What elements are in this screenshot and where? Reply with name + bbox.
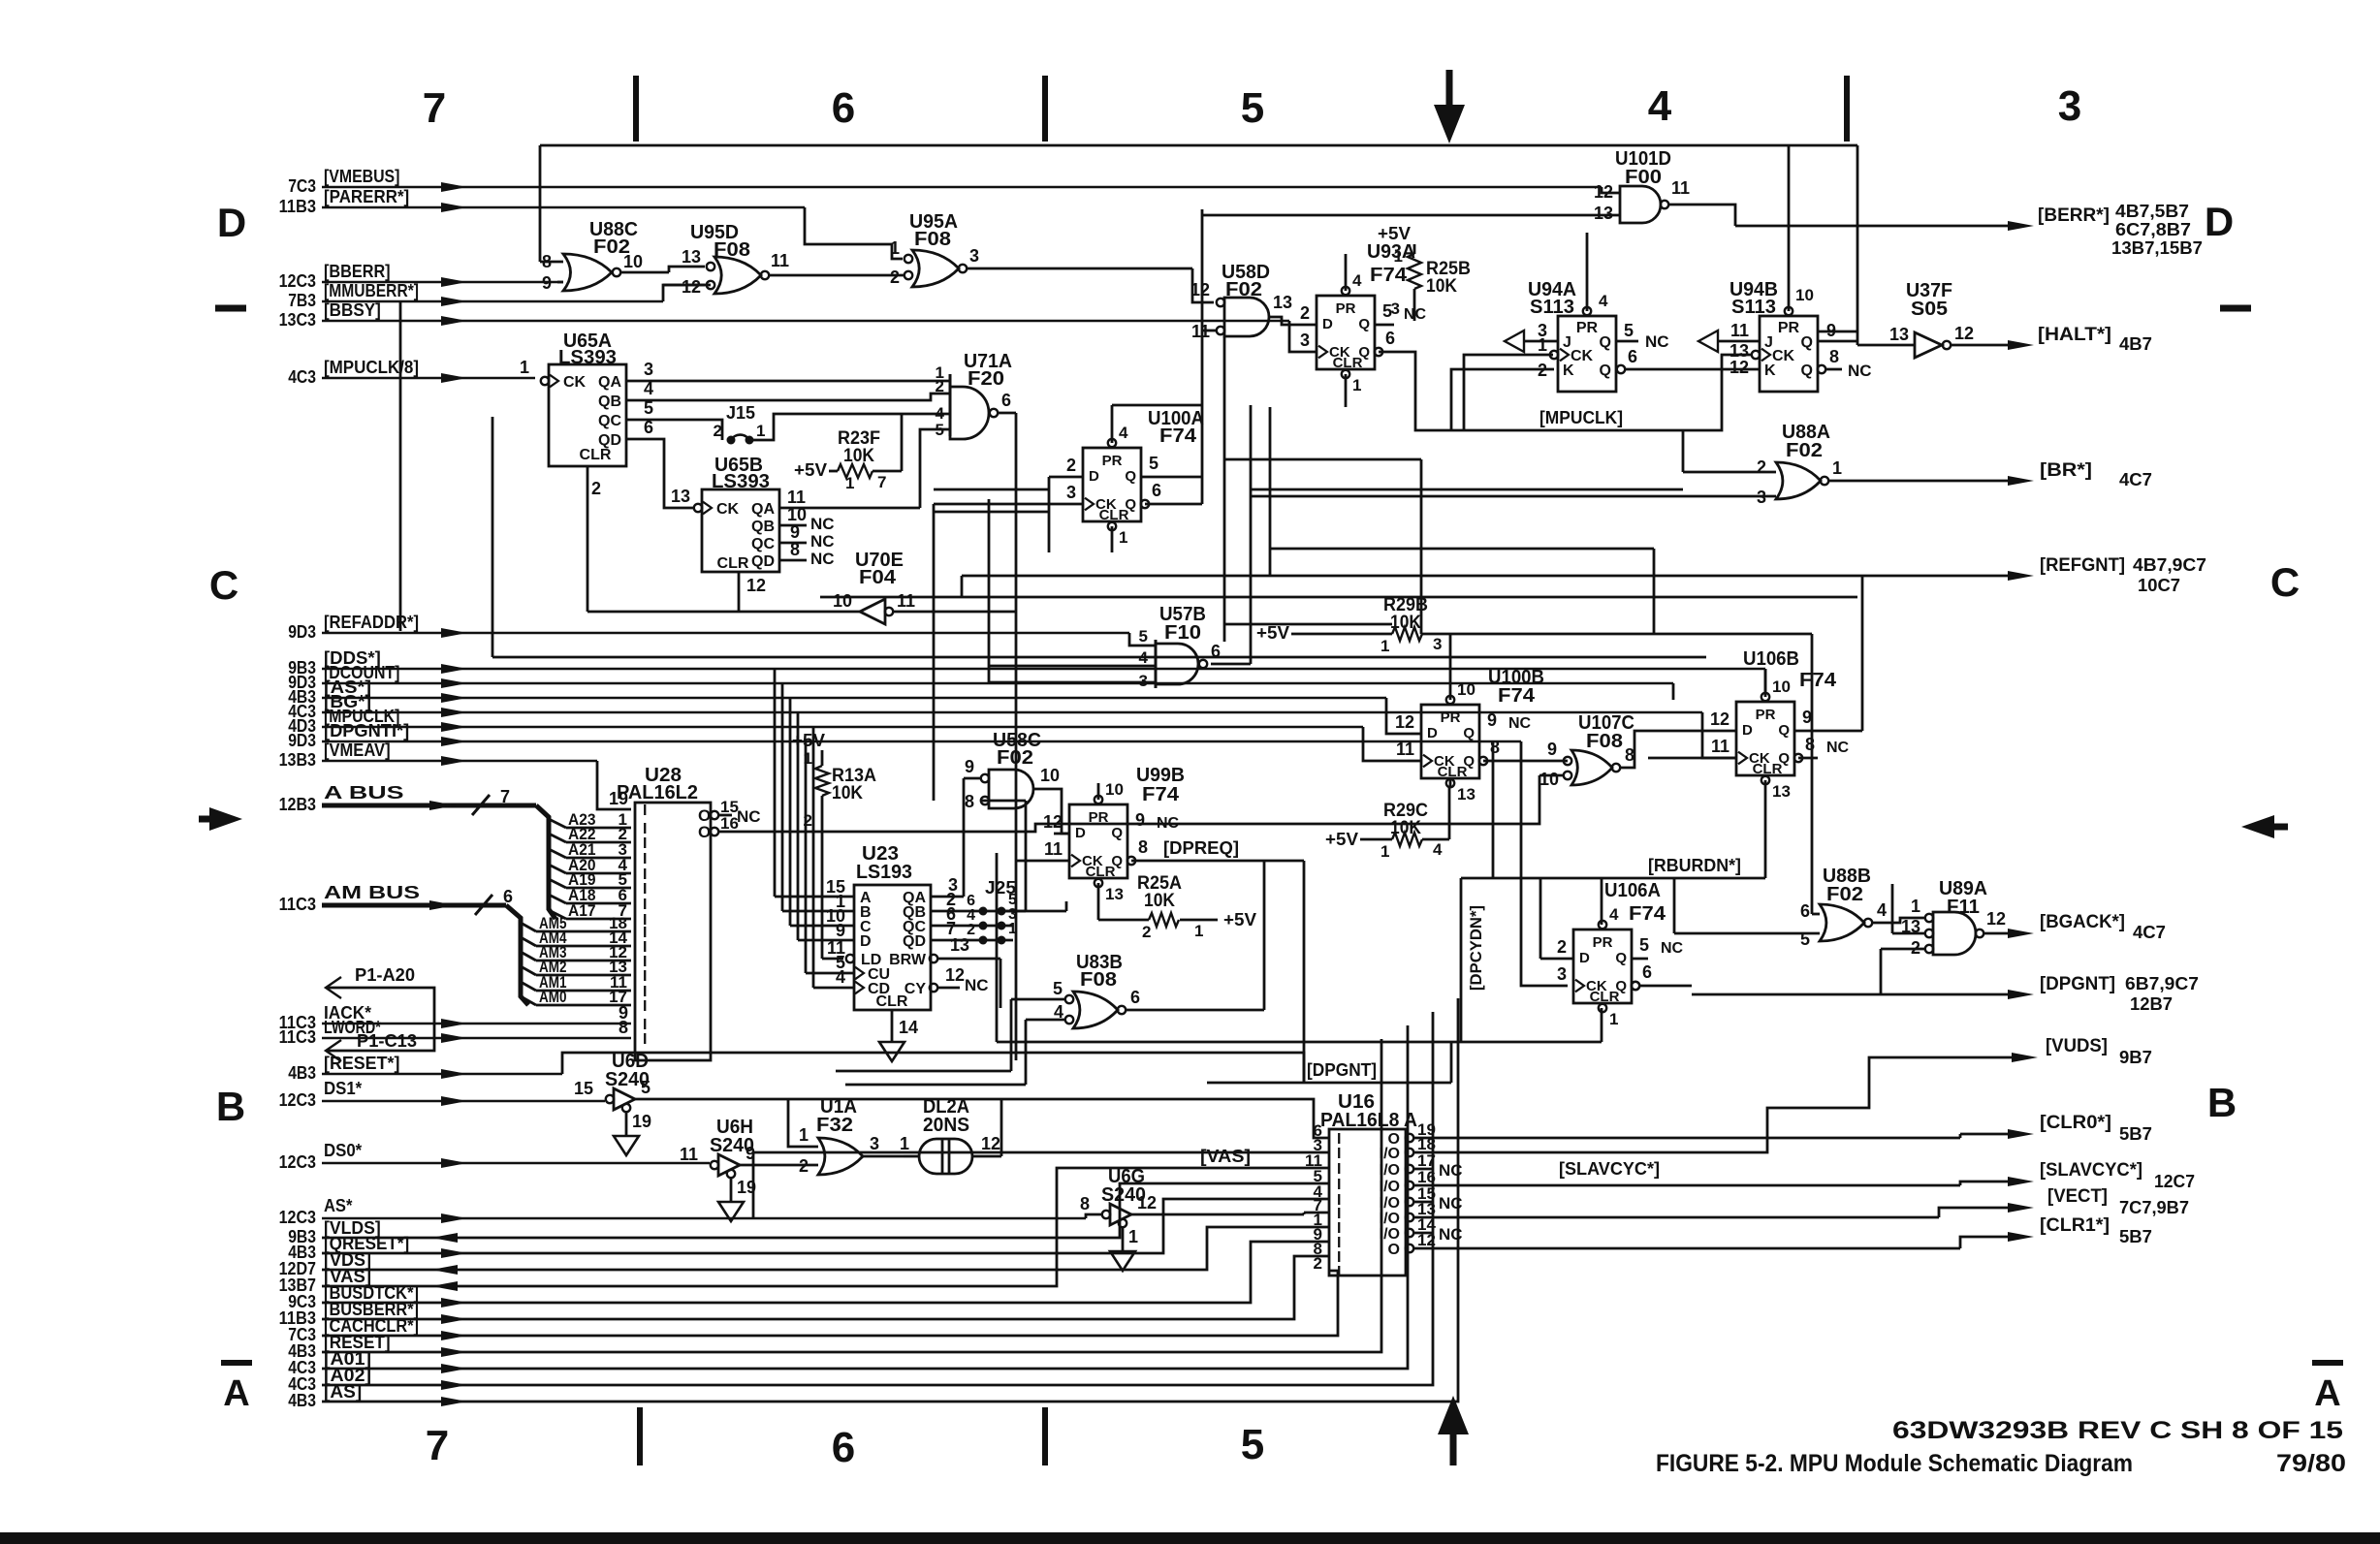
svg-text:[VMEAV]: [VMEAV] (324, 740, 391, 760)
gate U88B F02 (NOR) (1674, 634, 1925, 949)
flip-flop U106B F74 (1648, 576, 1862, 878)
bottom border bar (0, 1532, 2380, 1544)
svg-text:[BGACK*]: [BGACK*] (2040, 912, 2125, 932)
output [VECT] arrow (2008, 1186, 2189, 1217)
border column number 6 top (832, 84, 855, 132)
svg-text:2: 2 (591, 479, 601, 498)
svg-text:8: 8 (1080, 1194, 1090, 1213)
net 4B3 [QRESET*] entry wire with staircase to U16 (288, 1199, 1329, 1262)
svg-text:LWORD*: LWORD* (324, 1018, 381, 1037)
svg-text:D: D (1427, 725, 1438, 741)
svg-text:NC: NC (1826, 740, 1850, 756)
wire U57B output up trunk (1211, 405, 1251, 664)
svg-text:F10: F10 (1164, 622, 1201, 644)
inverter U70E F04 (587, 550, 1016, 624)
svg-text:[REFADDR*]: [REFADDR*] (324, 613, 419, 632)
gate U1A F32 (OR) (799, 1096, 904, 1176)
svg-text:F32: F32 (816, 1115, 853, 1136)
svg-text:8: 8 (1490, 738, 1500, 757)
svg-text:13: 13 (1273, 293, 1292, 312)
svg-text:4: 4 (1352, 271, 1362, 290)
svg-text:[DPGNT]: [DPGNT] (2040, 974, 2115, 994)
wire U16 pin16 to SLAVCYC output (1444, 1159, 2026, 1185)
svg-text:9B7: 9B7 (2119, 1048, 2152, 1067)
svg-text:[DPCYDN*]: [DPCYDN*] (1467, 905, 1485, 991)
wire long y678 (492, 417, 1706, 657)
svg-text:QC: QC (598, 413, 621, 429)
svg-text:3: 3 (1557, 964, 1567, 984)
svg-text:P1-A20: P1-A20 (355, 965, 415, 985)
border dash right (2220, 305, 2251, 312)
svg-text:9: 9 (542, 273, 552, 293)
svg-text:12: 12 (1190, 280, 1210, 299)
svg-text:[MPUCLK/8]: [MPUCLK/8] (324, 358, 419, 377)
svg-text:12C3: 12C3 (279, 1090, 316, 1110)
svg-text:I/O: I/O (1380, 1211, 1400, 1227)
wire U94A K feed (1451, 369, 1554, 430)
svg-text:CY: CY (904, 981, 927, 997)
svg-text:1: 1 (1008, 921, 1017, 937)
svg-text:13B3: 13B3 (279, 750, 316, 770)
svg-text:F08: F08 (1080, 969, 1117, 991)
svg-text:7C7,9B7: 7C7,9B7 (2119, 1198, 2189, 1217)
flip-flop U94A S113 (1528, 233, 1760, 392)
svg-text:O: O (1388, 1242, 1400, 1258)
gate U58C F02 (NOR neg-logic) (964, 730, 1069, 834)
svg-text:11C3: 11C3 (279, 1027, 316, 1047)
svg-text:[VMEBUS]: [VMEBUS] (324, 167, 399, 186)
wire U23 inputs bundle (775, 669, 854, 988)
wire U65B.QD NC stub (779, 559, 807, 562)
wire U23.BRW stub (936, 959, 1000, 1008)
border arrow bottom (up) (1438, 1396, 1469, 1465)
border row letter D right (2205, 199, 2234, 244)
svg-text:Q: Q (1778, 750, 1790, 767)
border column number 3 top (2058, 82, 2081, 130)
svg-text:4: 4 (1877, 900, 1887, 920)
border row letter A right with overbar (2312, 1363, 2343, 1414)
gate U107C F08 (AND neg-logic) (1539, 712, 1715, 789)
svg-text:11C3: 11C3 (279, 895, 316, 914)
svg-text:I: I (1337, 1146, 1341, 1162)
svg-text:8: 8 (965, 792, 974, 811)
svg-text:+5V: +5V (1325, 830, 1358, 849)
svg-text:Q: Q (1615, 950, 1627, 966)
svg-text:2: 2 (799, 1156, 809, 1176)
resistor R13A 10K (pullup) (792, 731, 876, 959)
net 11B3 [BUSBERR*] entry wire with staircase to U16 (279, 1256, 1329, 1328)
svg-text:[BBERR]: [BBERR] (324, 262, 391, 281)
wire filler horizontal y566 (1270, 549, 1654, 634)
svg-text:12: 12 (1417, 1231, 1436, 1249)
svg-text:F00: F00 (1625, 167, 1662, 188)
svg-text:I: I (1337, 1264, 1341, 1280)
svg-text:[SLAVCYC*]: [SLAVCYC*] (2040, 1160, 2142, 1181)
wire filler y474 bundle (1224, 459, 1421, 634)
svg-text:I/O: I/O (1380, 1195, 1400, 1212)
svg-text:F04: F04 (859, 567, 897, 588)
svg-text:1: 1 (1380, 637, 1389, 655)
svg-text:3: 3 (969, 246, 979, 266)
svg-text:Q: Q (1358, 344, 1370, 361)
svg-text:K: K (1563, 362, 1574, 379)
wire filler vertical x1310 (1269, 407, 1272, 576)
wire top feedback net y150 (540, 145, 1857, 262)
svg-text:[BBSY]: [BBSY] (324, 300, 381, 320)
svg-text:2: 2 (1538, 361, 1547, 380)
svg-text:11: 11 (897, 591, 915, 611)
open arrow into U94A J (1505, 331, 1558, 352)
svg-text:CLR: CLR (717, 555, 749, 572)
svg-text:4B7,9C7: 4B7,9C7 (2133, 555, 2206, 575)
svg-text:I: I (1337, 1177, 1341, 1193)
svg-text:19: 19 (609, 789, 628, 808)
svg-text:10: 10 (1040, 766, 1060, 785)
svg-text:QD: QD (751, 553, 775, 570)
wire filler vertical x963 (934, 504, 1008, 801)
wire U65A.QA to U71A pin1 (626, 380, 950, 383)
svg-text:B: B (216, 1084, 245, 1129)
wire U65A.QD to U65B.CK (626, 439, 694, 508)
svg-text:1: 1 (520, 358, 529, 377)
flip-flop U94B S113 (1729, 145, 1872, 392)
wire U65A.QB to U71A pin2 (626, 394, 950, 400)
svg-text:K: K (1764, 362, 1776, 379)
buffer U6D S240 (574, 1051, 1329, 1155)
svg-text:11: 11 (787, 488, 806, 507)
bus AM BUS fanout AM5-AM0 (521, 914, 631, 1006)
output [SLAVCYC*] arrow (2008, 1160, 2195, 1191)
svg-text:13: 13 (671, 487, 690, 506)
svg-text:9D3: 9D3 (288, 622, 316, 642)
output [VUDS] arrow (2012, 1036, 2152, 1067)
svg-text:3: 3 (1139, 672, 1148, 690)
svg-text:1: 1 (1119, 528, 1127, 547)
border arrow right (left-pointing) (2241, 815, 2288, 838)
counter U65B LS393 (671, 455, 835, 595)
gate U88C F02 (NOR) (540, 219, 705, 293)
svg-text:10K: 10K (1144, 891, 1175, 911)
svg-text:11: 11 (1730, 321, 1749, 340)
net label [DPCYDN*] vertical (1467, 905, 1485, 991)
gate U95D F08 (AND neg-logic) (682, 222, 904, 297)
svg-text:QA: QA (751, 501, 775, 518)
svg-text:[DPGNT]: [DPGNT] (1307, 1060, 1377, 1080)
wire U65B.CLR down (738, 572, 741, 612)
net 4B3 [AS] entry wire with staircase to U16 (288, 998, 1458, 1410)
svg-text:1: 1 (1194, 922, 1203, 940)
net 4B3 [RESET*] entry wire (288, 1053, 1304, 1083)
svg-text:NC: NC (1439, 1194, 1463, 1213)
svg-text:16: 16 (720, 814, 739, 833)
net 12C3 [BBERR] entry wire (279, 262, 563, 291)
svg-text:A17: A17 (568, 901, 596, 920)
svg-text:10: 10 (623, 252, 643, 271)
svg-text:F11: F11 (1947, 897, 1980, 918)
net 9D3 [DCOUNT] entry wire (288, 663, 1673, 700)
jumper block J25 (967, 878, 1066, 945)
net 13C3 [BBSY] entry wire (279, 300, 1317, 352)
wire filler y528 (934, 511, 1049, 514)
wire U100A trunk x1240 (1201, 209, 1204, 504)
svg-text:1: 1 (1394, 247, 1403, 266)
svg-text:2: 2 (714, 422, 722, 440)
wire IACK to U28 pin9 (619, 1003, 628, 1023)
svg-text:10: 10 (1105, 780, 1124, 799)
svg-text:11: 11 (1711, 737, 1729, 756)
svg-text:1: 1 (1128, 1227, 1138, 1246)
bus AM BUS entry (11C3) (279, 883, 528, 1005)
resistor R25A 10K (pullup) (1098, 873, 1256, 941)
svg-text:12: 12 (1986, 909, 2006, 929)
gate U88A F02 (NOR) (1251, 422, 1842, 507)
svg-text:6: 6 (1800, 901, 1810, 921)
net 9D3 [REFADDR*] entry wire (288, 613, 1156, 646)
svg-text:12C3: 12C3 (279, 1152, 316, 1172)
svg-text:[DPREQ]: [DPREQ] (1163, 838, 1239, 858)
svg-text:8: 8 (1829, 347, 1839, 366)
svg-text:12: 12 (1137, 1193, 1157, 1213)
delay line DL2A 20NS (900, 1096, 1001, 1174)
wire U65B.QB NC stub (779, 524, 807, 527)
wire LWORD to U28 pin8 (619, 1018, 628, 1037)
svg-text:8: 8 (1625, 745, 1634, 765)
svg-text:Q: Q (1600, 362, 1611, 379)
svg-text:2: 2 (1066, 456, 1076, 475)
svg-text:NC: NC (1848, 362, 1872, 380)
wire U16 pin12 to CLR1 output (1444, 1237, 2026, 1248)
output [BERR*] wire (1735, 202, 2203, 258)
svg-text:I: I (643, 881, 647, 898)
border tick top 3/4 (1844, 76, 1850, 142)
border column number 7 bottom (426, 1422, 449, 1469)
svg-text:PAL16L8 A: PAL16L8 A (1320, 1110, 1417, 1131)
svg-text:9D3: 9D3 (288, 731, 316, 750)
svg-text:A: A (2314, 1373, 2340, 1414)
bus A BUS entry (12B3) (279, 783, 555, 919)
svg-text:6: 6 (1628, 347, 1637, 366)
border column number 6 bottom (832, 1424, 855, 1471)
border row letter B left (216, 1084, 245, 1129)
svg-text:DS1*: DS1* (324, 1079, 362, 1098)
svg-text:13: 13 (1889, 325, 1909, 344)
border row letter C right (2270, 559, 2300, 605)
svg-text:U106B: U106B (1743, 648, 1799, 670)
net 4C3 [BG*] entry wire (288, 692, 1736, 758)
svg-text:[RESET*]: [RESET*] (324, 1054, 399, 1073)
net 11C3 LWORD* entry wire (279, 1018, 631, 1047)
svg-text:5: 5 (1241, 1421, 1264, 1468)
border column number 7 top (423, 84, 446, 132)
border row letter B right (2207, 1080, 2237, 1125)
svg-text:Q: Q (1600, 334, 1611, 351)
wire U23.QC row (931, 925, 1013, 928)
svg-text:1: 1 (845, 474, 854, 492)
flip-flop U99B F74 (1016, 765, 1304, 920)
border row letter D left (217, 200, 246, 245)
svg-text:12: 12 (746, 576, 766, 595)
border dash left D/C (215, 305, 246, 312)
svg-text:5: 5 (641, 1078, 651, 1097)
open arrow into U94B J (1698, 331, 1760, 352)
svg-text:12: 12 (682, 277, 701, 297)
svg-text:9: 9 (1135, 810, 1145, 830)
svg-text:Q: Q (1463, 725, 1475, 741)
svg-text:CLR: CLR (580, 447, 612, 463)
svg-text:B: B (2207, 1080, 2237, 1125)
svg-text:6: 6 (1211, 642, 1221, 661)
gate U101D F00 (NAND) (1202, 148, 1735, 226)
svg-text:13: 13 (1105, 885, 1124, 903)
svg-text:13: 13 (1772, 782, 1791, 801)
wire U65A.QC to J15 (626, 420, 722, 440)
gate U57B F10 (NAND3) (989, 499, 1221, 690)
svg-text:F20: F20 (968, 368, 1004, 390)
svg-text:PAL16L2: PAL16L2 (617, 782, 698, 804)
svg-text:4: 4 (1433, 840, 1443, 859)
svg-text:QD: QD (903, 933, 926, 950)
svg-text:Q: Q (1463, 753, 1475, 770)
svg-text:2: 2 (1757, 457, 1766, 477)
svg-text:F74: F74 (1799, 670, 1837, 691)
svg-text:C: C (209, 562, 238, 608)
svg-text:Q: Q (1111, 853, 1123, 869)
svg-text:+5V: +5V (794, 460, 827, 480)
wire U65A.CLR down (587, 466, 589, 612)
wire U16 pin3 feed (753, 1152, 1329, 1218)
wire DPGNT horizontal to U16 zone (1207, 1042, 1451, 1083)
svg-text:7: 7 (426, 1422, 449, 1469)
svg-text:12: 12 (1043, 812, 1063, 832)
svg-text:F08: F08 (1586, 731, 1623, 752)
net 7C3 [CACHCLR*] entry wire with staircase to U16 (288, 1271, 1338, 1344)
svg-text:9: 9 (965, 757, 974, 776)
gate U58D F02 (NOR neg-logic) (1190, 262, 1317, 341)
svg-text:PR: PR (1756, 707, 1776, 723)
svg-text:I: I (643, 968, 647, 985)
svg-text:F74: F74 (1370, 265, 1408, 286)
svg-text:2: 2 (1557, 937, 1567, 957)
svg-text:I: I (643, 835, 647, 852)
svg-text:12: 12 (1954, 324, 1974, 343)
svg-text:A: A (223, 1373, 249, 1414)
svg-text:10K: 10K (1426, 276, 1457, 297)
wire U16 pin13 to VECT output (1444, 1208, 2026, 1217)
svg-text:6: 6 (1001, 391, 1011, 410)
svg-text:F02: F02 (1826, 884, 1863, 905)
svg-text:9: 9 (1547, 740, 1557, 759)
svg-text:14: 14 (899, 1018, 918, 1037)
svg-text:Q: Q (1358, 316, 1370, 332)
svg-text:2: 2 (936, 377, 944, 395)
svg-text:19: 19 (632, 1112, 651, 1131)
svg-text:12B3: 12B3 (279, 795, 316, 814)
svg-text:U106A: U106A (1604, 880, 1661, 901)
svg-text:4: 4 (1119, 424, 1128, 442)
svg-text:[MPUCLK]: [MPUCLK] (1539, 408, 1623, 427)
ground below U23 pin14 (879, 1010, 918, 1061)
svg-text:3: 3 (1300, 331, 1310, 350)
output [DPGNT] wire (1692, 974, 2199, 1014)
svg-text:+5V: +5V (1378, 224, 1411, 243)
svg-text:[MMUBERR*]: [MMUBERR*] (324, 281, 419, 300)
gate U89A F11 (AND3 neg-logic) (1881, 878, 2006, 994)
svg-text:Q: Q (1125, 468, 1136, 485)
net 4D3 [MPUCLK] entry wire (288, 707, 1408, 761)
border arrow top (down) (1434, 70, 1465, 143)
net 4C3 [MPUCLK/8] entry wire (288, 358, 535, 387)
svg-text:5: 5 (1053, 979, 1063, 998)
svg-text:3: 3 (644, 360, 653, 379)
svg-text:O: O (698, 823, 711, 841)
svg-text:5: 5 (1149, 454, 1158, 473)
svg-text:QC: QC (751, 536, 775, 552)
svg-text:7: 7 (423, 84, 446, 132)
svg-text:A BUS: A BUS (324, 783, 404, 803)
svg-text:NC: NC (1439, 1161, 1463, 1180)
net 4C3 [A01] entry wire with staircase to U16 (288, 1025, 1408, 1377)
svg-text:3: 3 (2058, 82, 2081, 130)
gate U83B F08 (AND neg-logic) (836, 861, 1264, 1085)
flip-flop U100A F74 (1008, 405, 1204, 552)
svg-text:4: 4 (1599, 292, 1608, 310)
svg-text:4C7: 4C7 (2119, 470, 2152, 489)
gate U95A F08 (AND neg-logic) (890, 211, 1214, 302)
svg-text:4B7,5B7: 4B7,5B7 (2115, 202, 2189, 221)
svg-text:F74: F74 (1142, 784, 1180, 805)
svg-text:F02: F02 (1225, 279, 1262, 300)
net 4B3 [AS*] entry wire (288, 677, 1411, 734)
wire U16 pin18 to VUDS output (1444, 1057, 2030, 1152)
svg-text:12C7: 12C7 (2154, 1172, 2195, 1191)
wire U23.CY NC stub (936, 987, 960, 990)
svg-text:F02: F02 (997, 747, 1033, 769)
svg-text:1: 1 (890, 238, 900, 258)
resistor R23F 10K (794, 414, 902, 492)
svg-text:6: 6 (1130, 988, 1140, 1007)
svg-text:[DPGNTI*]: [DPGNTI*] (324, 721, 409, 740)
wire DPREQ trunk down (1303, 861, 1306, 1083)
wire U16 pin19 to CLR0 output (1444, 1134, 2026, 1138)
svg-text:U93A: U93A (1367, 241, 1415, 263)
net 13B7 [VAS] entry wire with staircase to U16 (279, 1168, 1329, 1295)
svg-text:10K: 10K (1390, 818, 1421, 838)
svg-text:Q: Q (1801, 362, 1813, 379)
output [HALT*] wire (1951, 325, 2152, 354)
svg-text:PR: PR (1576, 320, 1599, 336)
PAL U16 PAL16L8A (1305, 1091, 1463, 1280)
svg-text:F08: F08 (914, 229, 951, 250)
svg-text:12B7: 12B7 (2130, 994, 2173, 1014)
svg-text:5: 5 (1139, 627, 1148, 646)
svg-text:NC: NC (1508, 715, 1532, 732)
svg-text:12C3: 12C3 (279, 271, 316, 291)
svg-text:4B7: 4B7 (2119, 334, 2152, 354)
svg-text:2: 2 (1314, 1254, 1322, 1273)
svg-text:11: 11 (1044, 839, 1063, 859)
border row letter C left (209, 562, 238, 608)
svg-text:I/O: I/O (1380, 1226, 1400, 1243)
svg-text:8: 8 (1805, 735, 1815, 754)
svg-text:10K: 10K (1390, 613, 1421, 633)
svg-text:[PARERR*]: [PARERR*] (324, 187, 409, 206)
svg-text:1: 1 (1352, 376, 1361, 394)
svg-text:F02: F02 (1786, 440, 1823, 461)
svg-text:5: 5 (1639, 935, 1649, 955)
svg-text:10K: 10K (843, 446, 874, 466)
net 4C3 [A02] entry wire with staircase to U16 (288, 1012, 1433, 1394)
svg-text:9: 9 (1802, 708, 1812, 727)
